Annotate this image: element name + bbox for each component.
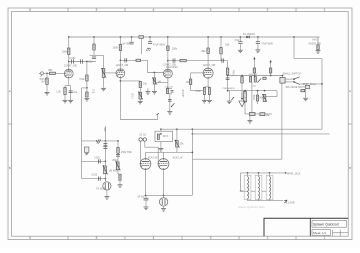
svg-text:100k: 100k — [112, 47, 118, 50]
presence pot wiper small — [232, 97, 234, 100]
fx box — [84, 147, 89, 152]
wire V1 cathode — [68, 78, 70, 86]
wire filter cap 1 lead — [149, 37, 151, 41]
svg-text:1uF 450: 1uF 450 — [122, 44, 131, 46]
wire grid B drop 2 — [157, 147, 159, 164]
frame zone letters left/right — [9, 89, 351, 170]
winding OT winding 2 — [259, 176, 260, 199]
title block name cell — [312, 221, 347, 228]
node B+ at filter cap 3 — [257, 36, 259, 38]
node screen n3 — [270, 75, 272, 77]
wire OT left link — [241, 190, 248, 192]
node plate wire n2 — [176, 128, 178, 130]
wire V1 coupling — [69, 61, 96, 63]
wire pot wiper to V2 grid — [105, 72, 116, 74]
node OT top n1 — [247, 172, 249, 174]
node screen n0 — [227, 75, 229, 77]
ground tone tail — [118, 185, 123, 188]
frame zone ticks left/right — [8, 123, 352, 125]
node tone n2 — [117, 140, 119, 142]
connector arrow bias down — [241, 98, 243, 100]
wire slope drop — [104, 126, 106, 181]
node V1 plate tap — [68, 61, 70, 63]
wire presence shunt — [228, 91, 230, 101]
svg-text:470R: 470R — [195, 91, 201, 93]
bright pot wiper — [138, 92, 143, 100]
node B+ at filter cap 1 — [149, 36, 151, 38]
bias page triangle — [239, 101, 245, 107]
svg-text:12AX7_GB: 12AX7_GB — [64, 64, 77, 67]
svg-text:3: 3 — [210, 8, 212, 12]
svg-text:47uF: 47uF — [234, 39, 240, 42]
node plate wire n3 — [192, 128, 194, 130]
svg-text:A: A — [9, 89, 11, 93]
tone switch hatch — [96, 139, 101, 144]
resistor R PI plate — [202, 48, 210, 53]
node nfb n — [244, 90, 246, 92]
svg-text:0.022: 0.022 — [94, 157, 100, 159]
svg-text:1.5k: 1.5k — [56, 91, 61, 94]
capacitor C mid — [91, 174, 100, 180]
capacitor C treble — [116, 154, 120, 156]
wire Ck2 drop — [139, 81, 141, 92]
treble pot wiper — [116, 161, 121, 170]
wire presence wire — [228, 90, 277, 92]
node cathode bus n1 — [145, 194, 147, 196]
OT box 1 — [244, 175, 251, 199]
resistor R input 1M — [41, 78, 48, 85]
svg-text:470k: 470k — [79, 78, 85, 81]
ground mode switch — [303, 98, 308, 101]
ground filter cap 3 — [255, 50, 260, 53]
wire V1 Ck lead — [70, 86, 72, 100]
resistor R PI plate 2 — [220, 48, 222, 54]
svg-text:6CA7_W: 6CA7_W — [173, 157, 183, 160]
resistor R NFB 47k — [244, 92, 247, 103]
mode switch box — [305, 85, 309, 88]
node B+ at PI plate 2 — [220, 36, 222, 38]
svg-text:100k: 100k — [62, 50, 68, 53]
wire V3 RC bracket top — [167, 87, 172, 89]
wire bias trim feed — [176, 129, 178, 140]
svg-text:G1 G2: G1 G2 — [139, 135, 146, 137]
capacitor C slope a — [103, 144, 107, 146]
gain2 pot wiper — [152, 77, 157, 84]
wire grid leak drop — [153, 73, 155, 92]
node B+ at screen feed — [293, 36, 295, 38]
wire coil3 bottom lead — [269, 199, 271, 201]
node tone n1 — [105, 140, 107, 142]
resistor R tail 10k — [208, 88, 210, 95]
resistor R grid B — [269, 68, 271, 73]
svg-text:SPL MODE SWITCH: SPL MODE SWITCH — [286, 87, 308, 89]
resistor R V3 grid leak — [153, 78, 155, 84]
capacitor C switch — [168, 99, 172, 101]
wire PI tail bracket — [204, 86, 209, 88]
svg-text:1.5k 1uF: 1.5k 1uF — [165, 87, 174, 89]
tube V5 6CA7 — [140, 159, 151, 170]
svg-text:Splawn Quickrod: Splawn Quickrod — [313, 223, 339, 227]
svg-text:1: 1 — [324, 236, 326, 240]
switch lever 1 — [294, 77, 300, 79]
wire coil2 bottom lead — [258, 199, 260, 201]
wire filter cap 2 lead — [239, 37, 241, 41]
wire V3 RC bracket bot — [167, 93, 172, 95]
wire standby top run — [294, 58, 322, 60]
capacitor C filter 3 — [256, 42, 274, 46]
wire bias trim lower — [176, 147, 178, 152]
grid connector B — [143, 138, 146, 141]
connector arrow to grid B — [269, 60, 271, 63]
wire bias div drop — [251, 82, 253, 114]
svg-text:Hi-G: Hi-G — [313, 39, 318, 42]
resistor bias trim pot — [176, 141, 179, 148]
switch lever — [172, 103, 175, 106]
ground tail R2 — [207, 100, 212, 103]
wire filter cap 2 gnd lead — [239, 44, 241, 50]
resistor R bias feed — [241, 77, 243, 84]
resistor R grid A — [253, 68, 255, 73]
switch lever 2 — [294, 82, 300, 85]
wire V3 cathode lower — [169, 94, 171, 111]
wire PI grid wire — [191, 72, 204, 74]
wire V2 coupling run — [120, 59, 147, 61]
node node B — [86, 87, 88, 89]
wire V2 cathode branch — [120, 80, 140, 82]
wire bias div lead2 — [257, 101, 259, 104]
bias pot wiper — [258, 79, 262, 83]
capacitor C filter 1 — [148, 42, 166, 47]
wire NFB long wire — [192, 158, 282, 160]
capacitor C bright — [81, 59, 83, 63]
resistor R shunt 500k — [86, 92, 88, 97]
wire sense gnd lead — [145, 200, 147, 207]
wire PI plate 2 to run — [220, 54, 222, 61]
resistor R rail dropper — [139, 36, 144, 39]
wire sense lead — [145, 195, 147, 198]
wire tube B cathode — [163, 169, 165, 195]
wire bias div lead — [257, 91, 259, 95]
svg-text:B: B — [349, 166, 351, 170]
wire tail R1 lead — [203, 87, 205, 100]
fx box bars — [85, 152, 88, 154]
wire V3 coupling run — [168, 60, 228, 62]
wire coil2 top lead — [258, 173, 260, 177]
ground V3 grid leak — [152, 91, 157, 94]
wire PI plate — [207, 37, 209, 68]
wire NFB tall R lead — [244, 91, 246, 114]
wire bleeder gnd lead — [317, 49, 319, 52]
winding OT winding 1 — [248, 176, 249, 199]
wire T bracket — [90, 54, 98, 56]
svg-text:47uF 500V: 47uF 500V — [153, 43, 166, 46]
wire send gnd lead — [106, 190, 108, 196]
ground cathode fuse — [161, 209, 166, 212]
wire screen bus — [146, 151, 193, 153]
wire filter cap 3 gnd lead — [257, 44, 259, 49]
connector arrow to grid A — [253, 57, 255, 60]
node relay n — [160, 133, 162, 135]
wire grid B drop — [144, 141, 146, 147]
svg-text:12AX7_GB: 12AX7_GB — [116, 64, 129, 67]
wire C bypass lead — [131, 37, 133, 42]
svg-text:VOL1: VOL1 — [130, 93, 132, 100]
tube V2 12AX7 — [116, 69, 125, 78]
resistor R bias bottom2 — [260, 113, 265, 116]
svg-text:1,2,4,8R: 1,2,4,8R — [286, 202, 295, 204]
svg-text:5: 5 — [96, 8, 98, 12]
wire plate long wire — [161, 128, 322, 130]
resistor treble pot body — [116, 162, 119, 170]
title block outline — [264, 218, 349, 236]
resistor R presence a — [226, 68, 228, 75]
node switch feed node — [282, 75, 284, 77]
wire tube A cathode — [145, 169, 147, 195]
resistor R coupling V3 — [180, 59, 186, 61]
wire drop to T — [93, 50, 95, 55]
wire standby right drop — [321, 59, 323, 130]
winding OT winding 3 — [270, 176, 271, 199]
ground filter cap 2 — [238, 50, 243, 53]
wire T to pot — [98, 54, 104, 56]
wire coil1 bottom lead — [247, 199, 249, 201]
wire grid A lead — [253, 60, 255, 75]
ground V1 Rk — [63, 100, 68, 103]
svg-text:BOOST: BOOST — [181, 90, 183, 99]
resistor R series 470k — [136, 59, 141, 61]
node B+ at R chain — [93, 36, 95, 38]
node B+ at PI plate — [207, 36, 209, 38]
wire tone feed — [81, 88, 83, 179]
wire PI tail link — [191, 90, 205, 92]
wire coil link b — [262, 190, 266, 192]
resistor R bias bottom — [250, 112, 256, 115]
wire switch out 1 — [285, 78, 294, 80]
wire treble drop — [117, 141, 119, 174]
resistor presence pot body — [263, 95, 266, 102]
ground aux — [145, 92, 150, 95]
svg-text:250p: 250p — [112, 159, 118, 162]
node screen bus n — [192, 152, 194, 154]
wire PI grid drop — [190, 73, 192, 91]
wire screen feed wire — [228, 75, 283, 77]
node standby j — [321, 83, 323, 85]
ground tail R1 — [202, 100, 207, 103]
wire input to grid — [44, 72, 64, 74]
svg-text:1M: 1M — [157, 81, 160, 84]
node cathode bus n2 — [163, 194, 165, 196]
resistor R V2 plate — [112, 45, 121, 51]
tube V1 12AX7 — [64, 69, 73, 78]
wire V3 cathode — [167, 78, 169, 88]
capacitor C slope b — [103, 147, 107, 149]
svg-text:2: 2 — [267, 236, 269, 240]
resistor R tail tone — [119, 174, 121, 180]
node B+ at filter cap 2 — [240, 36, 242, 38]
wire bright pot gnd lead — [139, 99, 141, 101]
wire fb stub — [157, 115, 159, 120]
send jack — [103, 182, 111, 190]
resistor R drop 10k — [93, 44, 95, 50]
wire relay top lead — [160, 129, 162, 131]
node V2 plate tap — [120, 59, 122, 61]
wire aux gnd stub — [147, 88, 149, 91]
wire V2 plate — [119, 37, 121, 69]
svg-text:1: 1 — [324, 8, 326, 12]
capacitor C rail bypass — [122, 42, 134, 45]
node screen n2 — [254, 75, 256, 77]
ground bright pot — [138, 101, 143, 104]
svg-text:3: 3 — [210, 236, 212, 240]
capacitor C V1 cathode 22uF — [69, 91, 78, 94]
wire bottom bias wire — [245, 113, 272, 115]
wire V1 plate — [68, 37, 70, 69]
tube V3 12AX7 — [164, 69, 173, 78]
jack arrow — [284, 200, 287, 203]
svg-text:6CA7_W: 6CA7_W — [148, 157, 158, 160]
node presence n2 — [257, 90, 259, 92]
title block sub-dividers — [333, 230, 349, 237]
node OT top n3 — [269, 172, 271, 174]
svg-text:SMALL_SWITCH: SMALL_SWITCH — [283, 72, 301, 75]
frame zone ticks top/bottom — [68, 8, 296, 240]
resistor R bias c — [263, 77, 266, 79]
node V3 cathode node — [167, 87, 169, 89]
wire grid A stub — [139, 163, 142, 165]
OT box 2 — [255, 175, 262, 199]
node V2 cathode tap — [120, 80, 122, 82]
wire V3 grid wire — [148, 72, 164, 74]
wire bias feed drop — [241, 76, 243, 94]
wire tube A top lead — [145, 152, 147, 158]
diode D1 on rail — [243, 33, 256, 39]
wire grid A drop — [140, 141, 142, 164]
node B+ at C bypass — [131, 36, 133, 38]
wire mode drop — [305, 89, 307, 98]
wire input shunt lead — [46, 73, 48, 78]
resistor R mode — [301, 89, 305, 91]
node tone n3 — [105, 161, 107, 163]
presence pot wiper — [262, 94, 267, 102]
wire filter cap 3 lead — [257, 37, 259, 41]
wire coil3 top lead — [269, 173, 271, 177]
ground input 1M — [45, 92, 50, 95]
node screen wire n1 — [192, 133, 194, 135]
svg-text:PRESENCE: PRESENCE — [223, 88, 236, 90]
resistor R treble — [117, 148, 119, 154]
node B+ at V1 plate — [68, 36, 70, 38]
gain pot wiper — [101, 68, 106, 78]
resistor R bleeder — [317, 45, 319, 50]
node plate wire n1 — [160, 128, 162, 130]
resistor R tail 470 — [203, 88, 205, 95]
capacitor C PI coupling — [222, 59, 224, 63]
resistor R mix 470k — [79, 75, 88, 81]
ground V1 Ck — [68, 100, 73, 103]
resistor R V3 plate — [167, 46, 169, 50]
svg-text:1M: 1M — [186, 81, 189, 84]
wire standby lower run — [300, 83, 322, 85]
node V3 grid node — [154, 72, 156, 74]
ground bleeder — [316, 51, 321, 54]
wire tone top wire — [82, 140, 118, 142]
svg-text:0.022: 0.022 — [91, 174, 97, 176]
wire fuse lead — [163, 195, 165, 197]
frame zone numbers top/bottom — [29, 8, 326, 240]
svg-text:2: 2 — [267, 8, 269, 12]
capacitor R sense 1R — [144, 198, 149, 200]
wire presence corner — [276, 91, 278, 97]
resistor relay coil — [157, 134, 159, 139]
svg-text:Splawn Quickrod 100w: Splawn Quickrod 100w — [238, 205, 265, 209]
switch box S1 — [280, 78, 285, 84]
wire coil link a — [251, 190, 255, 192]
resistor R bias a — [250, 77, 252, 83]
ground bias bottom — [247, 121, 252, 124]
capacitor C coupling V3 — [173, 59, 175, 63]
svg-text:4: 4 — [153, 8, 155, 12]
node B+ at V2 plate — [120, 36, 122, 38]
cathode fuse F1 — [159, 198, 167, 206]
wire rail dropper tap — [141, 38, 143, 54]
svg-text:Sheet: 1/1: Sheet: 1/1 — [313, 231, 327, 235]
chassis ground hatch at C filter 1 — [146, 48, 151, 51]
ground gain pot — [101, 88, 106, 91]
svg-text:22u: 22u — [73, 91, 78, 94]
svg-text:V1B: V1B — [92, 89, 94, 94]
bias trim wiper — [175, 140, 180, 148]
resistor pot body bright — [139, 92, 142, 99]
capacitor C drop — [88, 57, 96, 63]
wire relay bottom lead — [160, 142, 162, 149]
relay box — [155, 131, 173, 141]
svg-text:TMB: TMB — [103, 127, 105, 132]
OT box 3 — [266, 175, 273, 199]
wire input shunt gnd lead — [46, 85, 48, 93]
svg-text:D1 1N4007: D1 1N4007 — [243, 33, 256, 36]
wire screen long wire — [192, 133, 329, 135]
ground relay — [158, 149, 163, 152]
wire screen feed riser — [293, 37, 295, 59]
wire coil1 top lead — [247, 173, 249, 177]
resistor gain pot body — [102, 69, 105, 78]
wire gain2 wiper link — [156, 82, 168, 84]
title block sheet cell — [312, 230, 331, 236]
svg-text:FX SEND: FX SEND — [96, 188, 106, 190]
wire tone tail gnd lead — [119, 180, 121, 184]
wire B+ end drop — [317, 37, 319, 45]
capacitor C coupling V1 — [69, 57, 76, 64]
node input node — [46, 72, 48, 74]
svg-text:4R: 4R — [240, 191, 243, 193]
wire V2 cathode — [119, 78, 121, 120]
svg-text:220k 1W: 220k 1W — [249, 74, 259, 76]
svg-text:100k: 100k — [172, 47, 178, 50]
wire PI cathode — [207, 78, 209, 87]
wire B+ rail — [69, 36, 320, 38]
svg-text:1R 5W: 1R 5W — [137, 196, 145, 198]
wire bias gnd lead — [249, 116, 251, 121]
node V3 plate tap — [167, 60, 169, 62]
node B+ at V3 plate — [167, 36, 169, 38]
wire OT top bus — [241, 172, 286, 174]
node screen n1 — [241, 75, 243, 77]
wire tone tail lead — [118, 173, 120, 175]
wire coupling drop — [147, 60, 149, 72]
svg-text:5: 5 — [96, 236, 98, 240]
svg-text:47uF 500V: 47uF 500V — [261, 43, 273, 46]
mid pot wiper — [103, 165, 108, 174]
